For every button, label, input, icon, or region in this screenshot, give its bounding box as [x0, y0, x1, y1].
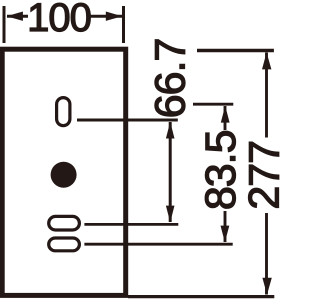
- top reference line (277): [197, 49, 274, 52]
- dim line 277 top segment: [265, 53, 268, 138]
- svg-text:66.7: 66.7: [147, 39, 195, 119]
- svg-text:277: 277: [241, 141, 283, 210]
- dim line 83.5 top stub: [224, 106, 227, 130]
- bottom reference line (277): [128, 295, 274, 298]
- keyhole slot (vertical): [57, 98, 70, 126]
- leader from lower wiring slot: [84, 243, 232, 246]
- leader from keyhole slot: [77, 119, 178, 122]
- arrow 83.5 down: [221, 226, 230, 243]
- arrow 277 up: [262, 52, 271, 69]
- arrow down at upper slot leader: [166, 206, 175, 223]
- wiring slot upper: [49, 216, 80, 230]
- arrow 277 down: [262, 278, 271, 295]
- reference bar 83.5 top: [193, 103, 233, 106]
- arrow 100 left: [7, 12, 23, 21]
- arrow 100 right: [106, 12, 122, 21]
- arrow up at keyhole leader: [166, 122, 175, 139]
- wiring slot lower: [49, 238, 80, 251]
- dim line 100 right segment: [89, 15, 122, 18]
- extension tick right (100): [122, 6, 125, 43]
- plate outline: [2, 49, 126, 295]
- svg-text:100: 100: [27, 0, 91, 40]
- arrow 83.5 up: [221, 106, 230, 123]
- leader from upper wiring slot: [84, 223, 178, 226]
- dim line slot-to-slot vertical: [169, 122, 172, 222]
- extension tick left (100): [3, 6, 6, 43]
- dim line 100 left segment: [7, 15, 28, 18]
- svg-text:83.5: 83.5: [197, 130, 245, 210]
- dim line 83.5 bottom stub: [224, 211, 227, 242]
- mounting hole (filled circle): [51, 162, 77, 188]
- dim line 277 bottom segment: [265, 213, 268, 295]
